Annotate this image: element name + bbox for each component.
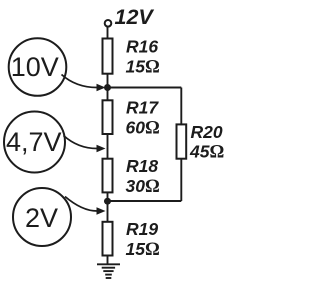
svg-text:R16: R16 bbox=[126, 36, 158, 56]
svg-text:4,7V: 4,7V bbox=[6, 127, 62, 157]
svg-text:12V: 12V bbox=[115, 5, 155, 29]
wire R20 to node B branch bbox=[180, 159, 182, 201]
node B junction dot bbox=[104, 198, 111, 205]
wire right branch down to R20 bbox=[180, 88, 182, 126]
svg-text:45Ω: 45Ω bbox=[189, 142, 224, 163]
svg-text:60Ω: 60Ω bbox=[126, 117, 160, 138]
svg-text:15Ω: 15Ω bbox=[126, 56, 160, 77]
arrow 10V to node A bbox=[62, 75, 98, 88]
wire terminal to R16 bbox=[107, 27, 109, 39]
wire node A to right branch bbox=[108, 87, 182, 89]
svg-text:R18: R18 bbox=[126, 156, 158, 176]
node A junction dot bbox=[104, 84, 111, 91]
arrow 4,7V to node R17-R18 bbox=[64, 136, 98, 149]
svg-text:R17: R17 bbox=[126, 97, 159, 117]
resistor R16 bbox=[103, 39, 113, 74]
wire R19 to ground bbox=[107, 255, 109, 264]
voltmeter circle 4,7V bbox=[4, 112, 65, 173]
voltmeter circle 10V bbox=[9, 38, 67, 96]
arrow 2V to node B bbox=[65, 197, 97, 212]
voltmeter circle 2V bbox=[13, 188, 71, 246]
resistor R17 bbox=[103, 100, 113, 134]
svg-text:30Ω: 30Ω bbox=[126, 176, 160, 197]
svg-text:R20: R20 bbox=[191, 122, 223, 142]
wire R18 to R19 through node B bbox=[107, 192, 109, 222]
resistor R20 bbox=[177, 124, 187, 158]
svg-text:2V: 2V bbox=[25, 203, 58, 233]
resistor R19 bbox=[103, 222, 113, 256]
ground bbox=[97, 264, 120, 278]
terminal 12V bbox=[105, 20, 112, 27]
svg-text:10V: 10V bbox=[11, 52, 59, 82]
wire R16 to R17 through node A bbox=[107, 74, 109, 101]
wire R17 to R18 bbox=[107, 134, 109, 160]
wire node B to right branch bbox=[108, 200, 182, 202]
svg-text:15Ω: 15Ω bbox=[126, 239, 160, 260]
resistor R18 bbox=[103, 159, 113, 193]
svg-text:R19: R19 bbox=[126, 219, 158, 239]
